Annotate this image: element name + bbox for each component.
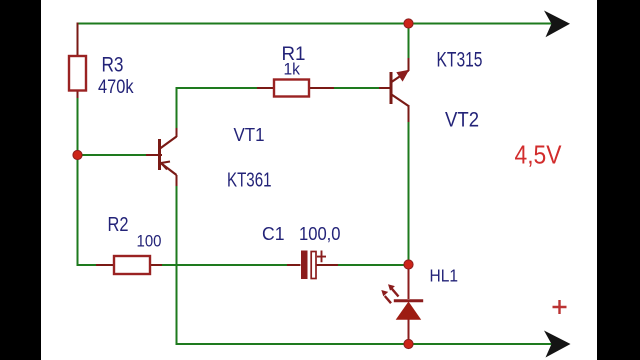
LED HL1 emission arrow 2 <box>385 296 391 303</box>
wire VT2 base lead <box>379 87 391 89</box>
wire HL1 to bottom node <box>408 320 410 345</box>
wire VT2 collector lead <box>408 58 410 71</box>
transistor VT1 emitter arrow (PNP, open) <box>161 162 170 170</box>
wire VT1 collector lead <box>176 128 178 137</box>
wire VT2 emitter lead <box>408 105 410 122</box>
LED HL1 triangle <box>396 302 422 320</box>
wire R2 to C1 <box>162 264 287 266</box>
capacitor C1 negative plate <box>301 251 308 280</box>
label plus polarity <box>553 300 567 314</box>
wire R3 top lead <box>77 23 79 57</box>
wire VT1 base from node A <box>79 154 147 156</box>
LED HL1 emission arrow 1 <box>392 288 399 296</box>
svg-text:C1: C1 <box>262 223 285 244</box>
resistor R3 <box>69 56 86 91</box>
svg-text:HL1: HL1 <box>430 266 459 286</box>
transistor VT1 emitter diagonal <box>160 163 177 176</box>
wire VT2 emitter to node B <box>408 122 410 265</box>
wire R1 right lead <box>309 87 334 89</box>
wire R3 bottom lead <box>77 91 79 99</box>
wire R2 left lead <box>96 264 114 266</box>
svg-text:KT315: KT315 <box>437 48 483 72</box>
svg-text:R2: R2 <box>108 214 129 236</box>
transistor VT2 base bar <box>390 72 393 104</box>
transistor VT1 collector diagonal <box>160 137 177 149</box>
wire R3 to node A <box>77 98 79 155</box>
resistor R1 <box>274 80 309 97</box>
wire C1 to node B <box>338 264 409 266</box>
wire R1 to VT2 base <box>334 87 379 89</box>
svg-text:470k: 470k <box>98 77 134 98</box>
capacitor C1 polarity plus <box>317 251 326 263</box>
wire VT1 emitter lead down <box>176 175 178 186</box>
wire R1 row left <box>176 87 258 89</box>
svg-text:R3: R3 <box>102 53 124 77</box>
node top junction <box>404 19 413 28</box>
wire top rail <box>78 23 553 25</box>
wire R2 right lead <box>150 264 162 266</box>
transistor VT2 collector diagonal with arrow <box>392 71 409 83</box>
wire VT1 base lead <box>146 154 162 156</box>
wire node B to HL1 <box>408 265 410 300</box>
node B junction <box>404 260 413 269</box>
wire C1 right lead <box>317 264 339 266</box>
svg-text:VT1: VT1 <box>234 125 265 145</box>
node bottom junction <box>404 339 413 348</box>
transistor VT1 base bar <box>158 139 161 170</box>
svg-text:100: 100 <box>137 232 162 251</box>
svg-text:4,5V: 4,5V <box>515 140 563 170</box>
svg-text:1k: 1k <box>284 60 301 79</box>
svg-text:100,0: 100,0 <box>299 224 341 244</box>
LED HL1 cathode bar <box>394 299 423 302</box>
supply arrow bottom <box>544 331 571 358</box>
wire VT1 emitter to bottom rail <box>177 186 554 344</box>
transistor VT2 emitter diagonal <box>392 95 409 107</box>
wire VT1 collector riser <box>176 88 178 128</box>
wire R1 left lead <box>257 87 274 89</box>
wire VT2 collector from top node <box>408 24 410 59</box>
svg-text:VT2: VT2 <box>445 109 479 132</box>
capacitor C1 positive plate <box>311 252 316 279</box>
wire node A down to R2 row <box>78 155 97 265</box>
resistor R2 <box>114 256 150 274</box>
svg-text:KT361: KT361 <box>227 169 272 192</box>
wire C1 left lead <box>287 264 301 266</box>
node A junction <box>73 150 82 159</box>
supply arrow top <box>544 11 570 38</box>
